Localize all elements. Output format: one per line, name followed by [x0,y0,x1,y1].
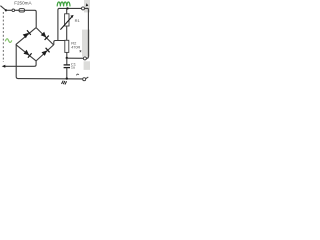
top-right line under inductor [59,7,89,9]
bottom rail terminal circle [83,78,86,81]
wire terminal to fuse [15,9,19,11]
switch terminal circle [12,9,15,12]
fuse F1 body [19,9,25,12]
small mark above bottom rail right [76,74,79,75]
varistor top lead [66,9,68,14]
fuse through-wire [19,9,25,11]
diode D4 (bottom-to-right) [42,48,50,56]
wire switch to terminal [7,9,12,11]
right edge vertical wire [87,8,89,58]
capacitor C1 plates [64,64,70,66]
varistor diagonal arrow [60,17,72,30]
junction dot top line / varistor [66,7,68,9]
svg-text:F250mA: F250mA [14,0,32,5]
bridge edge top-left wire [16,28,36,45]
junction dot cap/ground [66,77,68,79]
dashed linkage line [2,12,4,62]
cursor mark top-right [86,3,89,6]
open terminal circle on top line [82,7,85,10]
diode D3 (left-to-bottom) [24,50,32,58]
grey panel top-right [84,0,90,12]
stub from terminal to grey panel [86,77,89,79]
green AC waveform on wire [5,39,12,43]
bridge edge top-right wire [36,28,54,45]
svg-text:R1: R1 [75,18,81,23]
ground symbol hatches [62,81,67,85]
current arrow on AC return wire [2,65,6,68]
capacitor C1 top lead [66,58,68,64]
small mark near right panel [80,50,82,52]
wire branch up to top line [58,8,60,40]
svg-text:1u: 1u [71,66,75,70]
varistor R1 body [65,14,69,26]
wire left vertex down to bottom rail [16,45,18,79]
switch SW1 pivot dot [5,9,7,11]
wire right vertex up and right [54,41,67,45]
bottom rail [18,78,83,80]
diode D2 (top-to-right) [41,32,49,40]
capacitor bottom lead [66,68,68,79]
bridge edge bottom-left wire [16,45,36,61]
switch SW1 lever [0,6,5,11]
inductor L1 (green coil) [57,2,70,6]
bridge edge bottom-right wire [36,45,54,61]
grey panel right-mid [82,30,90,57]
svg-text:470R: 470R [71,45,80,49]
junction dot R2/output [66,57,68,59]
resistor R2 body [65,40,69,52]
diode D1 (left-to-top) [23,30,31,38]
open terminal circle on output wire [83,57,86,60]
wire bottom vertex down and left (AC return) [5,61,36,66]
top rail wire to corner, down to bridge top [25,10,37,27]
wire varistor to R2 [66,26,68,40]
output wire to right with terminal [68,57,87,59]
grey panel right-lower [84,61,90,70]
wire R2 to junction [66,52,68,58]
